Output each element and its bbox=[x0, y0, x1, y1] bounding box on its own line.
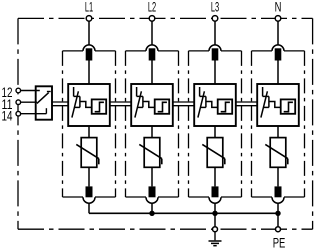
changeover switch blade bbox=[37, 92, 51, 104]
node L1 bbox=[86, 16, 92, 22]
wire bottom terminal to PE bus pole 3 bbox=[214, 203, 216, 213]
wire bus to PE node bbox=[277, 213, 279, 227]
enclosure border left edge bbox=[17, 18, 19, 229]
wire terminal to spark gap pole 1 bbox=[88, 61, 90, 85]
wire spark gap to varistor pole 2 bbox=[151, 126, 153, 138]
triggered spark gap F1 (pole 1) bbox=[68, 84, 110, 126]
bottom plug-in terminal pole 2 bbox=[146, 186, 158, 203]
enclosure border right edge bbox=[312, 18, 314, 229]
wire terminal 12 bbox=[18, 90, 40, 92]
earth node on enclosure bbox=[213, 227, 218, 232]
wire L3 node to top terminal bbox=[214, 21, 216, 45]
junction N/bus bbox=[275, 211, 280, 216]
wire spark gap to varistor pole 3 bbox=[214, 126, 216, 138]
wire spark gap to varistor pole 1 bbox=[88, 126, 90, 138]
triggered spark gap F4 (pole 4) bbox=[257, 84, 299, 126]
pole 2 module outline (L2) bbox=[126, 51, 179, 197]
varistor R1 (pole 1) bbox=[76, 138, 99, 168]
svg-text:L3: L3 bbox=[211, 0, 219, 15]
mechanical/trigger link (double line) bbox=[173, 102, 194, 106]
wire terminal 14 bbox=[18, 113, 46, 115]
varistor R3 (pole 3) bbox=[202, 138, 225, 168]
bottom plug-in terminal pole 3 bbox=[209, 186, 221, 203]
wire terminal to spark gap pole 2 bbox=[151, 61, 153, 85]
pole 4 module outline (N) bbox=[252, 51, 305, 197]
wire terminal 11 bbox=[18, 101, 37, 103]
wire spark gap to varistor pole 4 bbox=[277, 126, 279, 138]
pole 1 module outline (L1) bbox=[63, 51, 116, 197]
bottom plug-in terminal pole 4 bbox=[272, 186, 284, 203]
top plug-in terminal pole 2 bbox=[146, 45, 158, 61]
node 11 bbox=[16, 100, 21, 105]
node L3 bbox=[212, 16, 218, 22]
wire bottom terminal to PE bus pole 1 bbox=[88, 203, 90, 213]
triggered spark gap F2 (pole 2) bbox=[131, 84, 173, 126]
mechanical/trigger link (double line) bbox=[110, 102, 131, 106]
varistor R2 (pole 2) bbox=[139, 138, 162, 168]
wire bus to earth node bbox=[214, 213, 216, 227]
top plug-in terminal pole 4 bbox=[272, 45, 284, 61]
wire terminal to spark gap pole 3 bbox=[214, 61, 216, 85]
node N bbox=[275, 16, 281, 22]
node L2 bbox=[149, 16, 155, 22]
svg-text:L2: L2 bbox=[148, 0, 156, 15]
mechanical/trigger link (double line) bbox=[236, 102, 257, 106]
bottom plug-in terminal pole 1 bbox=[83, 186, 95, 203]
pole 3 module outline (L3) bbox=[189, 51, 242, 197]
wire terminal to spark gap pole 4 bbox=[277, 61, 279, 85]
wire L2 node to top terminal bbox=[151, 21, 153, 45]
top plug-in terminal pole 3 bbox=[209, 45, 221, 61]
contact 14 riser bbox=[45, 108, 47, 114]
wire varistor to bottom terminal pole 3 bbox=[214, 167, 216, 186]
svg-text:N: N bbox=[275, 0, 282, 15]
remote signalling contact box bbox=[36, 86, 52, 119]
ground bbox=[209, 232, 222, 246]
wire L1 node to top terminal bbox=[88, 21, 90, 45]
triggered spark gap F3 (pole 3) bbox=[194, 84, 236, 126]
junction L2/bus bbox=[149, 211, 154, 216]
wire varistor to bottom terminal pole 2 bbox=[151, 167, 153, 186]
wire N node to top terminal bbox=[277, 21, 279, 45]
enclosure border bottom edge bbox=[18, 228, 313, 230]
mechanical/trigger link (double line) bbox=[52, 102, 68, 106]
wire bottom terminal to PE bus pole 2 bbox=[151, 203, 153, 213]
PE bus wire bbox=[89, 212, 278, 214]
node PE bbox=[276, 227, 281, 232]
junction L3/bus bbox=[212, 211, 217, 216]
node 14 bbox=[16, 111, 21, 116]
varistor R4 (pole 4) bbox=[265, 138, 288, 168]
wire varistor to bottom terminal pole 4 bbox=[277, 167, 279, 186]
svg-text:L1: L1 bbox=[85, 0, 93, 15]
wire bottom terminal to PE bus pole 4 bbox=[277, 203, 279, 213]
node 12 bbox=[16, 88, 21, 93]
wire varistor to bottom terminal pole 1 bbox=[88, 167, 90, 186]
top plug-in terminal pole 1 bbox=[83, 45, 95, 61]
svg-text:PE: PE bbox=[273, 235, 286, 250]
svg-text:14: 14 bbox=[2, 108, 13, 123]
enclosure border top edge bbox=[18, 17, 313, 19]
